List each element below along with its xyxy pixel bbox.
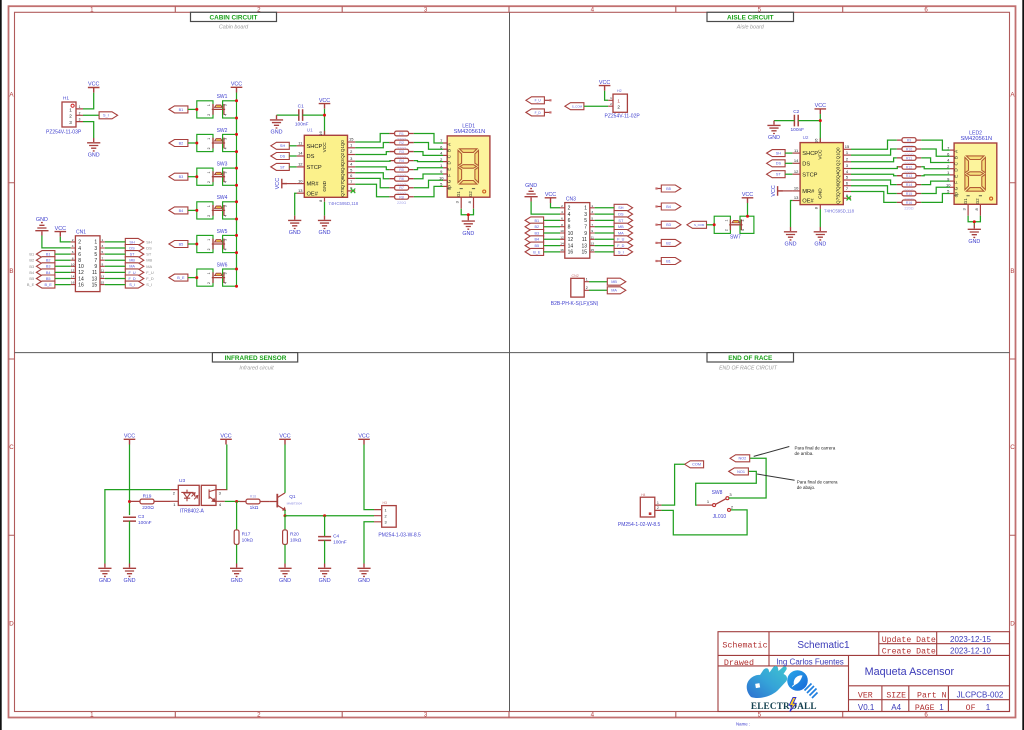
resistor R17 10k — [234, 530, 239, 545]
svg-text:C: C — [9, 444, 14, 451]
svg-text:1: 1 — [617, 99, 620, 104]
net flag B4 dangling — [657, 206, 662, 208]
net flag B3 at SW3 — [169, 173, 188, 180]
svg-text:10kΩ: 10kΩ — [242, 538, 254, 544]
wire H1 pin2 to flag — [83, 114, 99, 116]
svg-text:2: 2 — [72, 238, 74, 242]
svg-text:1: 1 — [69, 107, 72, 112]
svg-text:SW6: SW6 — [217, 262, 228, 268]
svg-text:4: 4 — [72, 244, 74, 248]
svg-text:3: 3 — [224, 171, 228, 173]
wire B_E to CN1 — [55, 284, 71, 286]
wire U2 OE# to GND — [791, 201, 793, 228]
svg-text:B4: B4 — [666, 205, 671, 209]
svg-text:1: 1 — [90, 712, 94, 719]
svg-text:PZ254V-11-03P: PZ254V-11-03P — [46, 130, 82, 136]
wire S_COM to SW7 — [707, 224, 715, 226]
wire emitter row to connector pin2 — [285, 515, 374, 517]
svg-text:CN1: CN1 — [76, 230, 86, 236]
svg-text:GND: GND — [968, 239, 980, 245]
wire opto pin4 to R18/R17 junction — [225, 500, 240, 502]
wire VCC to H1 pin1 — [83, 93, 94, 109]
wire R4 to LED1 — [414, 160, 443, 163]
svg-text:Q1: Q1 — [289, 494, 296, 500]
svg-text:DS: DS — [802, 161, 810, 167]
op-amp U1 74HC595D — [297, 128, 359, 206]
svg-text:Para final de carrera: Para final de carrera — [795, 445, 836, 450]
svg-text:SW1: SW1 — [217, 94, 228, 100]
svg-text:SH: SH — [146, 239, 152, 244]
svg-text:MA: MA — [611, 289, 617, 293]
wire B3 to CN1 — [55, 265, 71, 267]
svg-text:ELECTROALL: ELECTROALL — [751, 701, 817, 711]
svg-text:G2: G2 — [468, 191, 473, 197]
net flag B2 at CN3 — [525, 223, 544, 230]
wire CN2 pin1 to MB — [589, 281, 607, 283]
svg-text:D: D — [9, 620, 14, 627]
svg-text:13: 13 — [590, 242, 594, 246]
svg-text:R15: R15 — [906, 192, 913, 196]
net flag B4 at CN1 — [36, 269, 55, 276]
power VCC H1 — [88, 82, 100, 93]
svg-text:A4: A4 — [891, 703, 901, 712]
wire U1 Q1 to R2 — [355, 143, 389, 148]
svg-text:1: 1 — [207, 138, 211, 140]
svg-text:R20: R20 — [290, 532, 299, 538]
svg-text:de abajo.: de abajo. — [797, 485, 816, 490]
ground LED1 — [462, 216, 475, 237]
wire R5 to LED1 — [414, 168, 443, 170]
power VCC U1 — [319, 98, 331, 109]
svg-text:R19: R19 — [143, 494, 152, 500]
svg-text:8: 8 — [568, 225, 571, 231]
svg-text:2: 2 — [79, 111, 81, 115]
svg-text:Q0: Q0 — [340, 140, 345, 147]
wire C1 to GND — [277, 114, 299, 116]
net flag NO2 — [730, 455, 750, 462]
wire U1 Q0 to R1 — [355, 134, 389, 143]
svg-text:10kΩ: 10kΩ — [290, 538, 302, 544]
wire CN2 pin2 to MA — [589, 289, 607, 291]
net flag SH at U1 — [271, 142, 290, 149]
net flag B5 at SW5 — [169, 241, 188, 248]
svg-text:B4: B4 — [29, 270, 35, 275]
wire Q1 emitter down — [284, 510, 286, 516]
svg-text:R7: R7 — [399, 186, 404, 190]
svg-text:DS: DS — [280, 154, 286, 158]
svg-text:SH: SH — [129, 240, 135, 244]
net flag ST at CN1 right — [125, 251, 144, 258]
wire C2 to GND — [774, 120, 794, 122]
svg-text:4: 4 — [224, 147, 228, 149]
svg-text:1: 1 — [90, 6, 94, 13]
svg-text:F_U: F_U — [535, 99, 542, 103]
svg-text:1: 1 — [384, 508, 386, 512]
svg-text:B2: B2 — [29, 258, 34, 263]
svg-text:F: F — [953, 181, 958, 184]
wire R1 to LED1 — [414, 134, 443, 144]
svg-text:7: 7 — [94, 258, 97, 264]
svg-text:dp: dp — [447, 185, 452, 191]
svg-text:10: 10 — [78, 264, 84, 270]
svg-text:VCC: VCC — [599, 80, 610, 86]
wire H3 pin3 to GND6 — [364, 522, 374, 564]
svg-text:MA: MA — [618, 231, 624, 235]
svg-text:Q7S: Q7S — [340, 187, 345, 196]
svg-text:14: 14 — [71, 275, 75, 279]
svg-text:E: E — [447, 168, 452, 171]
net flag B_E at CN3 — [525, 248, 544, 255]
svg-text:2: 2 — [617, 105, 620, 110]
svg-text:4: 4 — [224, 215, 228, 217]
ground infrared 3 — [230, 564, 243, 585]
wire R20 to GND4 — [284, 545, 286, 564]
power VCC at U2 MR# — [771, 185, 783, 196]
svg-text:B_E: B_E — [177, 276, 185, 280]
svg-text:Drawed: Drawed — [724, 658, 754, 668]
svg-text:12: 12 — [298, 162, 303, 167]
svg-text:2: 2 — [207, 248, 211, 250]
svg-text:R16: R16 — [906, 201, 913, 205]
callout arriba — [754, 447, 790, 457]
svg-text:COM: COM — [692, 463, 701, 467]
net flag DS at CN3 right — [614, 211, 633, 218]
svg-text:11: 11 — [92, 270, 97, 276]
wire R7 to LED1 — [414, 180, 443, 188]
svg-text:INFRARED SENSOR: INFRARED SENSOR — [225, 355, 287, 362]
svg-text:STCP: STCP — [307, 165, 322, 171]
svg-text:SH: SH — [776, 152, 782, 156]
wire VCC4 to H3 pin1 — [364, 445, 374, 510]
ground infrared 5 — [318, 564, 331, 585]
wire SH to U2 SHCP — [785, 152, 792, 154]
net flag F_U at CN3 right — [614, 236, 633, 243]
ground U1 OE# — [288, 216, 301, 237]
svg-text:2: 2 — [257, 712, 261, 719]
svg-text:CABIN CIRCUIT: CABIN CIRCUIT — [210, 14, 258, 21]
wire DS to U1 DS pin14 — [289, 155, 296, 157]
net flag B3 at CN3 — [525, 230, 544, 237]
power VCC infrared 4 — [358, 434, 370, 445]
svg-text:GND: GND — [231, 578, 243, 584]
svg-text:VCC: VCC — [771, 185, 777, 196]
svg-text:VCC: VCC — [231, 82, 242, 88]
wire B4 to CN3 — [544, 238, 560, 240]
connector H3 PM254-1-03-W-8.5 — [374, 501, 421, 539]
svg-text:3: 3 — [79, 118, 81, 122]
svg-text:VCC: VCC — [279, 434, 290, 440]
net flag COM — [685, 461, 704, 468]
wire U1 Q2 to R3 — [355, 152, 389, 155]
svg-text:R3: R3 — [399, 150, 404, 154]
net flag SH at U2 — [767, 150, 786, 157]
wire R20 branch — [284, 516, 286, 530]
svg-text:6: 6 — [72, 250, 74, 254]
switch SW2 — [197, 128, 237, 152]
svg-text:PM254-1-02-W-8.5: PM254-1-02-W-8.5 — [618, 522, 661, 528]
svg-text:F_U: F_U — [617, 238, 624, 242]
svg-text:OF: OF — [966, 704, 976, 713]
svg-text:JLCPCB-002: JLCPCB-002 — [957, 691, 1004, 700]
svg-text:S_COM: S_COM — [694, 223, 705, 227]
resistor R3 220 — [389, 151, 413, 153]
net flag B1 at CN1 — [36, 251, 55, 258]
wire R14 to LED2 — [921, 181, 950, 185]
power VCC at U1 MR# — [275, 178, 287, 189]
svg-text:VCC: VCC — [322, 142, 328, 153]
svg-text:5: 5 — [94, 252, 97, 258]
svg-text:B2: B2 — [179, 141, 184, 145]
wire CN3 to MA — [595, 232, 615, 234]
svg-text:Name :: Name : — [736, 721, 750, 726]
section title CABIN CIRCUIT — [191, 12, 277, 21]
net flag B2 at SW2 — [169, 140, 188, 147]
svg-text:SW8: SW8 — [712, 490, 723, 496]
switch SW6 — [197, 262, 237, 286]
wire B2 to CN1 — [55, 259, 71, 261]
svg-text:B2: B2 — [535, 225, 540, 229]
svg-text:8: 8 — [78, 258, 81, 264]
svg-text:220Ω: 220Ω — [397, 201, 406, 205]
wire C4 to GND5 — [324, 540, 326, 563]
svg-text:9: 9 — [591, 229, 593, 233]
capacitor C1 100nF — [299, 109, 303, 121]
svg-text:15: 15 — [581, 250, 587, 256]
svg-text:2: 2 — [561, 204, 563, 208]
resistor R8 220 — [389, 196, 413, 198]
svg-text:G: G — [953, 186, 958, 190]
resistor R19 220 — [130, 500, 171, 502]
svg-text:VCC: VCC — [815, 103, 826, 109]
svg-text:1: 1 — [79, 105, 81, 109]
svg-text:VCC: VCC — [319, 98, 330, 104]
wire B4 to CN1 — [55, 271, 71, 273]
wire CN3 VCC to pin2 — [551, 203, 561, 208]
power VCC SW7 — [742, 192, 754, 203]
wire CN1 to ST — [105, 253, 126, 255]
power VCC CN3 — [545, 192, 557, 203]
svg-text:5: 5 — [758, 712, 762, 719]
wire bus segment 4 — [236, 219, 238, 235]
wire R8 to LED1 — [414, 186, 443, 196]
svg-text:B1: B1 — [666, 259, 671, 263]
svg-text:B2B-PH-K-S(LF)(SN): B2B-PH-K-S(LF)(SN) — [551, 301, 599, 307]
svg-text:VCC: VCC — [818, 149, 824, 160]
svg-text:100nF: 100nF — [138, 520, 152, 526]
wire R13 to LED2 — [921, 174, 950, 177]
wire CN1 VCC to pin2 — [60, 237, 70, 242]
svg-text:VCC: VCC — [275, 178, 281, 189]
LED display LED2 SM420561N — [946, 131, 997, 216]
svg-text:R14: R14 — [906, 183, 913, 187]
svg-text:H3: H3 — [383, 501, 387, 505]
svg-text:B3: B3 — [666, 223, 671, 227]
wire U2 pin8 to GND — [819, 209, 821, 227]
svg-text:4: 4 — [591, 6, 595, 13]
wire CN1 GND to pin4 — [42, 236, 71, 248]
svg-text:GND: GND — [88, 153, 100, 159]
wire U1 Q4 to R5 — [355, 167, 389, 170]
net flag MA — [607, 287, 626, 294]
junction VCC/C2 — [819, 119, 822, 122]
net flag ST at U2 — [767, 171, 786, 178]
svg-text:B_E: B_E — [27, 282, 35, 287]
ground U2 pin8 — [814, 227, 827, 248]
resistor R2 220 — [389, 142, 413, 144]
svg-text:MB: MB — [146, 258, 152, 263]
wire R9 to LED2 — [921, 140, 950, 150]
svg-text:Q6: Q6 — [836, 183, 841, 190]
svg-text:C2: C2 — [793, 109, 799, 115]
svg-text:10: 10 — [298, 178, 303, 183]
svg-text:S_COM: S_COM — [572, 105, 583, 109]
power VCC switch column — [231, 82, 243, 93]
net flag B1 at SW1 — [169, 106, 188, 113]
capacitor C2 100nF — [794, 115, 798, 127]
svg-text:F_D: F_D — [146, 276, 154, 281]
svg-text:C: C — [1010, 444, 1015, 451]
svg-text:4: 4 — [591, 712, 595, 719]
svg-text:10: 10 — [946, 183, 951, 188]
wire bus segment 2 — [236, 152, 238, 169]
wire U2 Q3 to R12 — [851, 167, 897, 169]
net flag F_D at CN1 right — [125, 275, 144, 282]
svg-text:10: 10 — [568, 231, 574, 237]
svg-text:3: 3 — [384, 521, 386, 525]
svg-text:B1: B1 — [46, 253, 51, 257]
svg-text:VCC: VCC — [124, 434, 135, 440]
svg-text:R11: R11 — [906, 156, 912, 160]
wire opto pin2 to GND1 — [105, 490, 171, 564]
net flag SH at CN3 right — [614, 204, 633, 211]
svg-text:1: 1 — [591, 204, 593, 208]
svg-text:2: 2 — [610, 102, 612, 106]
wire B1 to CN3 — [544, 219, 560, 221]
svg-text:F_D: F_D — [128, 277, 135, 281]
ground U2 OE# — [784, 227, 797, 248]
svg-text:S_I: S_I — [146, 282, 152, 287]
svg-text:100nF: 100nF — [333, 540, 347, 546]
svg-text:dp: dp — [953, 192, 958, 198]
svg-text:16: 16 — [318, 131, 323, 136]
svg-text:VCC: VCC — [88, 82, 99, 88]
svg-text:14: 14 — [560, 242, 564, 246]
svg-text:3: 3 — [224, 272, 228, 274]
svg-text:E: E — [953, 175, 958, 178]
svg-text:U1: U1 — [307, 128, 313, 133]
svg-text:B: B — [953, 156, 958, 159]
svg-text:R1: R1 — [399, 132, 404, 136]
wire CN3 to F_U — [595, 238, 615, 240]
section title AISLE CIRCUIT — [707, 12, 794, 21]
svg-text:SHCP: SHCP — [307, 144, 323, 150]
wire CN3 to ST — [595, 219, 615, 221]
svg-text:ST: ST — [280, 165, 286, 169]
resistor R11 220 — [897, 157, 921, 159]
svg-text:7: 7 — [102, 256, 104, 260]
svg-text:Q4: Q4 — [836, 172, 841, 179]
svg-text:3: 3 — [94, 246, 97, 252]
svg-text:STCP: STCP — [802, 172, 817, 178]
svg-text:2: 2 — [586, 286, 588, 290]
wire LED1 G1/G2 to GND — [461, 209, 473, 215]
svg-text:B: B — [9, 268, 13, 275]
svg-text:Schematic1: Schematic1 — [797, 640, 850, 651]
svg-text:16: 16 — [814, 138, 819, 143]
svg-text:B_E: B_E — [533, 250, 541, 254]
svg-text:PZ254V-11-02P: PZ254V-11-02P — [605, 113, 641, 119]
junction VCC/C1 — [323, 114, 326, 117]
svg-text:15: 15 — [590, 248, 594, 252]
svg-text:B_E: B_E — [45, 283, 53, 287]
svg-text:R18: R18 — [250, 495, 256, 499]
wire CN1 to F_D — [105, 278, 126, 280]
svg-text:1: 1 — [207, 239, 211, 241]
svg-text:4: 4 — [741, 229, 745, 231]
net flag F_U dangling — [526, 97, 545, 104]
svg-text:B1: B1 — [535, 219, 540, 223]
power VCC U2 — [815, 103, 827, 114]
wire U1 Q5 to R6 — [355, 173, 389, 179]
svg-text:B2: B2 — [46, 259, 51, 263]
svg-text:NO1: NO1 — [737, 470, 745, 474]
wire CN3 to F_D — [595, 245, 615, 247]
svg-text:3: 3 — [224, 205, 228, 207]
svg-text:OE#: OE# — [802, 199, 814, 205]
svg-text:SW2: SW2 — [217, 128, 228, 134]
net flag MB at CN1 right — [125, 257, 144, 264]
svg-text:B5: B5 — [29, 276, 34, 281]
svg-text:Q7: Q7 — [340, 182, 345, 189]
net flag MB at CN3 right — [614, 223, 633, 230]
svg-text:100nF: 100nF — [790, 127, 804, 133]
svg-text:11: 11 — [101, 269, 104, 273]
svg-text:B1: B1 — [179, 108, 184, 112]
svg-text:Q5: Q5 — [340, 170, 345, 177]
svg-text:Maqueta Ascensor: Maqueta Ascensor — [865, 666, 955, 678]
power VCC infrared 3 — [279, 434, 291, 445]
net flag MA at CN3 right — [614, 230, 633, 237]
svg-text:4: 4 — [78, 246, 81, 252]
svg-text:74HC595D,118: 74HC595D,118 — [824, 208, 854, 213]
net flag S_COM at SW7 — [687, 221, 707, 228]
net flag S_COM at H2 — [565, 103, 584, 110]
resistor R18 1k — [240, 501, 270, 503]
switch SW4 — [197, 195, 237, 219]
svg-text:B: B — [1010, 268, 1014, 275]
svg-text:B4: B4 — [179, 209, 184, 213]
svg-text:Q2: Q2 — [340, 152, 345, 159]
wire C2 to VCC junction — [798, 120, 820, 122]
svg-text:Q4: Q4 — [340, 165, 345, 172]
net flag B1 dangling — [657, 260, 662, 262]
net flag B3 at CN1 — [36, 263, 55, 270]
svg-text:GND: GND — [99, 578, 111, 584]
svg-text:B: B — [447, 149, 452, 152]
svg-text:6: 6 — [924, 6, 928, 13]
svg-text:12: 12 — [794, 169, 799, 174]
svg-text:R5: R5 — [399, 168, 404, 172]
wire B_E to CN3 — [544, 251, 560, 253]
svg-text:3: 3 — [102, 244, 104, 248]
wire S_COM to H2 pin2 — [584, 105, 608, 107]
wire CN1 to DS — [105, 247, 126, 249]
svg-text:4: 4 — [561, 210, 563, 214]
svg-text:CN2: CN2 — [572, 274, 579, 278]
svg-text:ST: ST — [130, 253, 136, 257]
svg-text:Create Date: Create Date — [882, 648, 936, 657]
svg-text:1: 1 — [725, 220, 729, 222]
